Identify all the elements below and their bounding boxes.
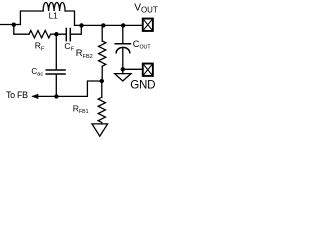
resistor RFB2 drop xyxy=(101,25,103,41)
wire main output rail xyxy=(75,24,143,26)
wire RFB1 to ground xyxy=(101,123,103,124)
wire CF to main rail xyxy=(71,26,81,34)
node H COUT gnd junction xyxy=(121,67,125,71)
capacitor COUT drop xyxy=(122,25,124,43)
wire RF to CF xyxy=(51,33,66,35)
ground RFB1 xyxy=(92,124,108,136)
capacitor CF xyxy=(66,29,70,41)
wire stub to ground xyxy=(122,69,124,73)
resistor RFB1 lead xyxy=(101,81,103,97)
svg-text:To FB: To FB xyxy=(6,90,28,100)
wire L1 right xyxy=(65,11,74,25)
node E FB junction xyxy=(100,79,104,83)
capacitor COUT xyxy=(115,44,130,53)
node C CF rail junction xyxy=(79,23,83,27)
wire CAC lower xyxy=(55,75,57,97)
svg-text:GND: GND xyxy=(130,78,155,91)
wire input left xyxy=(0,24,20,26)
arrow To FB xyxy=(31,94,38,99)
wire CAC upper xyxy=(55,34,57,69)
node G COUT rail junction xyxy=(121,23,125,27)
wire node to GND box xyxy=(123,68,143,70)
wire RFB2 to node xyxy=(101,66,103,81)
svg-text:L1: L1 xyxy=(49,11,59,20)
wire COUT lower xyxy=(122,48,124,69)
node D RFB2 rail junction xyxy=(101,23,105,27)
ground COUT xyxy=(115,74,131,81)
wire To FB run xyxy=(33,81,102,96)
capacitor CAC xyxy=(46,70,65,74)
node B RF-CF junction xyxy=(54,32,58,36)
wire drop to RF branch xyxy=(14,25,29,35)
node F CAC-FB junction xyxy=(54,94,58,98)
node A input junction xyxy=(12,23,16,27)
resistor RFB2 xyxy=(99,41,106,66)
wire riser to L1 xyxy=(20,11,43,25)
terminal GND box xyxy=(143,64,153,76)
inductor L1 xyxy=(43,3,65,12)
terminal VOUT box xyxy=(143,19,153,31)
resistor RF xyxy=(29,31,51,38)
resistor RFB1 xyxy=(98,97,105,122)
